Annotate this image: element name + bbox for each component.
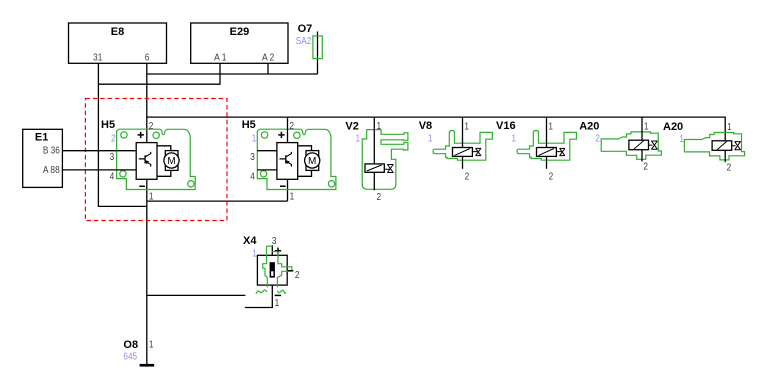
svg-text:2: 2 [111,133,116,144]
svg-text:645: 645 [123,351,137,362]
svg-text:1: 1 [511,133,516,144]
svg-text:A20: A20 [579,121,599,133]
svg-text:1: 1 [252,133,257,144]
ground point O8 [123,339,154,367]
fuse body [313,36,322,59]
box E29 [191,23,288,64]
wire branch to H5#2 pin1 [147,179,288,201]
svg-text:SA2: SA2 [296,36,312,47]
X4 pin 3 wire [271,245,273,262]
svg-text:1: 1 [679,134,684,145]
svg-text:X4: X4 [243,235,257,247]
box E8 [69,23,167,64]
valve V8 [419,117,493,182]
ground bar [140,364,155,367]
wire H5#1 pin1 to ground [146,179,148,364]
svg-text:A 88: A 88 [43,165,60,176]
svg-text:1: 1 [252,248,257,259]
X4 minus mark [275,294,281,296]
svg-text:E8: E8 [111,26,124,38]
svg-text:H5: H5 [101,119,115,131]
svg-text:V8: V8 [419,120,432,132]
svg-text:H5: H5 [242,119,256,131]
wire E1 A88 to H5 pin4 [62,169,136,171]
svg-text:1: 1 [149,339,154,350]
svg-text:E1: E1 [35,132,48,144]
stub H5#2 pin3 [257,150,277,152]
svg-text:2: 2 [595,133,600,144]
fuse wire [317,32,319,75]
wire E1 B36 to H5 pin3 [62,150,136,152]
stub H5#2 pin4 [257,169,277,171]
svg-text:B 36: B 36 [43,146,60,157]
fuse O7 [296,23,323,74]
valve A20 #1 [579,117,661,173]
svg-text:2: 2 [377,192,382,203]
svg-text:A 1: A 1 [214,53,227,64]
X4 pin 2 stub [288,270,293,272]
svg-text:1: 1 [275,298,280,309]
motor H5 #2 [242,117,336,202]
svg-text:O8: O8 [123,339,138,351]
wire pin31 down [98,63,146,206]
bus wire [147,117,725,140]
svg-text:O7: O7 [298,23,313,35]
svg-text:E29: E29 [230,26,250,38]
svg-text:A 2: A 2 [262,53,275,64]
valve V16 [496,117,576,182]
svg-text:1: 1 [356,133,361,144]
V2 connector housing outline with terminal tabs [362,130,408,190]
V2 valve hourglass symbol [384,165,393,173]
valve A20 #2 [663,121,745,173]
svg-text:1: 1 [428,133,433,144]
relay valve V2 [345,117,408,203]
X4 plus mark [275,248,281,254]
motor H5 #1 [101,119,195,202]
wire branch to X4 [147,294,246,296]
svg-text:A20: A20 [663,121,683,133]
svg-text:V16: V16 [496,120,516,132]
svg-text:6: 6 [145,53,150,64]
V2 pin 1 wire and pin 2 stub [373,117,375,190]
svg-text:3: 3 [272,236,277,247]
wire X4 pin1 [245,278,272,308]
box E1 [23,129,63,187]
X4 strain-relief squiggles [256,290,286,294]
svg-text:31: 31 [93,53,103,64]
X4 terminal blade [270,262,275,277]
X4 box [257,255,287,285]
wire A2 down [267,63,269,74]
svg-text:V2: V2 [345,121,358,133]
X4 connector housing (green) [263,246,292,287]
svg-text:2: 2 [295,270,300,281]
connector X4 [243,235,300,309]
wire top horizontal [147,73,318,75]
dashed selection box [85,99,227,221]
wire pin6 down [146,63,148,142]
wire A1 down [98,63,220,84]
V2 solenoid coil box [365,164,384,172]
